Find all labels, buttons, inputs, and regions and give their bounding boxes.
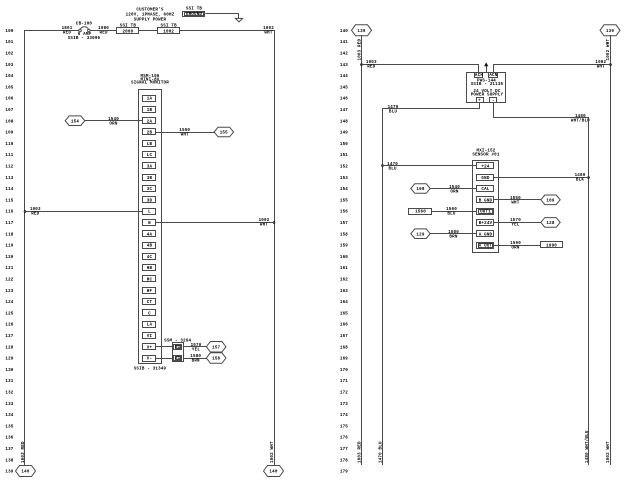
svg-text:1540: 1540	[449, 186, 460, 190]
svg-text:152: 152	[340, 166, 348, 170]
svg-text:ORN: ORN	[450, 191, 458, 195]
svg-text:51: 51	[175, 346, 181, 350]
node: wire label 1080 RED	[98, 27, 109, 36]
node: hexagon 155	[214, 127, 234, 137]
svg-text:CUSTOMER'S: CUSTOMER'S	[136, 8, 163, 13]
wire: bus 1003 RED (right sheet)	[361, 35, 363, 465]
svg-text:154: 154	[71, 120, 79, 124]
circuit breaker CB-100	[68, 23, 101, 41]
svg-text:WHT: WHT	[181, 134, 189, 138]
node: monitor terminal 4A (line 118)	[143, 231, 156, 238]
node: monitor terminal 3B (line 113)	[143, 175, 156, 181]
svg-text:160: 160	[340, 256, 348, 260]
svg-text:1003 RED: 1003 RED	[358, 441, 362, 463]
svg-text:ACH: ACH	[475, 74, 483, 78]
svg-text:BLU: BLU	[389, 168, 397, 172]
wire: rail breaker to TB 2000	[90, 30, 117, 32]
terminal SSI TB GROUND	[183, 8, 205, 17]
svg-text:B GND: B GND	[479, 199, 493, 203]
node: hexagon 108	[411, 184, 430, 194]
svg-text:138: 138	[5, 459, 13, 463]
svg-text:161: 161	[340, 267, 348, 271]
wire: bus 1470 BLU	[382, 108, 384, 465]
svg-text:HC: HC	[147, 279, 153, 283]
wire 1480 WHT/BLU from - terminal to bus	[494, 103, 589, 118]
svg-text:117: 117	[5, 222, 13, 226]
node: monitor terminal V+ (line 128)	[143, 344, 156, 351]
svg-text:3C: 3C	[147, 188, 153, 192]
ground: chassis arrow above power supply	[486, 64, 488, 73]
svg-text:CT: CT	[147, 301, 153, 305]
svg-text:LC: LC	[147, 154, 153, 158]
svg-text:144: 144	[340, 75, 348, 79]
svg-text:ORN: ORN	[109, 123, 117, 127]
svg-text:1801: 1801	[62, 27, 73, 31]
svg-text:169: 169	[340, 358, 348, 362]
svg-text:BLU: BLU	[389, 111, 397, 115]
svg-text:SUPPLY POWER: SUPPLY POWER	[134, 18, 167, 22]
terminal 1560	[409, 209, 432, 215]
wire 1002 WHT from terminal N to right bus	[273, 221, 276, 224]
node: sensor terminal CAL (line 154)	[477, 186, 494, 193]
svg-text:109: 109	[546, 199, 554, 203]
svg-text:3D: 3D	[147, 199, 153, 203]
node: monitor terminal 4C (line 120)	[143, 254, 156, 260]
node: sensor terminal +24 (line 152)	[477, 163, 494, 170]
svg-text:107: 107	[5, 109, 13, 113]
svg-text:108: 108	[5, 120, 13, 124]
svg-text:128: 128	[5, 346, 13, 350]
node: monitor terminal HF (line 123)	[143, 288, 156, 294]
node: monitor terminal 3C (line 114)	[143, 186, 156, 193]
svg-text:1A: 1A	[147, 98, 153, 102]
svg-text:153: 153	[340, 177, 348, 181]
node: monitor terminal LC (line 111)	[143, 152, 156, 159]
svg-text:V-: V-	[147, 358, 152, 362]
svg-text:SIGNAL MONITOR: SIGNAL MONITOR	[131, 81, 169, 85]
terminal block SSM - 3294	[164, 339, 191, 361]
node: customer supply note	[126, 8, 175, 23]
svg-text:HB: HB	[147, 267, 153, 271]
svg-text:133: 133	[5, 403, 13, 407]
wire: supply rail line 100, left bus to breaker	[24, 30, 79, 32]
op-amp U1: MSM-106 MINI-8X signal monitor block	[131, 75, 169, 363]
svg-text:171: 171	[340, 380, 348, 384]
svg-text:157: 157	[340, 222, 348, 226]
svg-text:158: 158	[212, 358, 220, 362]
svg-text:111: 111	[5, 154, 13, 158]
svg-text:118: 118	[5, 233, 13, 237]
node: wire label 1801 RED	[62, 27, 73, 36]
svg-text:2000: 2000	[122, 30, 133, 34]
wire: ground branch	[206, 14, 239, 19]
op-amp U2: MXI-152 SENSOR #01 block	[472, 150, 499, 253]
svg-text:178: 178	[340, 459, 348, 463]
svg-text:136: 136	[5, 437, 13, 441]
wire: rail TB 1002 to right bus, wire 1002 WHT	[180, 30, 275, 32]
svg-text:1002 WHT: 1002 WHT	[607, 39, 611, 61]
svg-text:159: 159	[340, 245, 348, 249]
svg-text:134: 134	[5, 414, 13, 418]
svg-text:129: 129	[5, 358, 13, 362]
svg-text:RED: RED	[63, 32, 71, 36]
node: sensor terminal A GND (line 158)	[477, 231, 494, 238]
svg-text:CB-100: CB-100	[76, 23, 93, 27]
svg-text:126: 126	[5, 324, 13, 328]
svg-text:POWER SUPPLY: POWER SUPPLY	[471, 94, 504, 98]
node: monitor terminal C (line 125)	[143, 310, 156, 317]
ground	[235, 18, 242, 22]
svg-text:109: 109	[5, 132, 13, 136]
wire 1003 RED from left bus to terminal L	[24, 210, 27, 213]
svg-text:158: 158	[340, 233, 348, 237]
svg-text:177: 177	[340, 448, 348, 452]
svg-text:WHT/BLU: WHT/BLU	[571, 119, 590, 124]
svg-text:139: 139	[357, 30, 365, 34]
wire: V- to terminal block	[156, 358, 173, 360]
wire: left sheet line-number column	[5, 30, 13, 475]
svg-text:142: 142	[340, 53, 348, 57]
svg-text:145: 145	[340, 86, 348, 90]
svg-text:119: 119	[5, 245, 13, 249]
svg-text:SSIB - 31135: SSIB - 31135	[471, 83, 504, 87]
svg-text:RED: RED	[100, 32, 108, 36]
wire: left bus 1003 RED	[24, 30, 26, 466]
svg-text:151: 151	[340, 154, 348, 158]
svg-text:1002: 1002	[163, 30, 174, 34]
svg-text:WHT: WHT	[597, 66, 605, 70]
svg-text:1580: 1580	[190, 355, 201, 359]
svg-text:YEL: YEL	[192, 349, 200, 353]
node: hexagon 158	[206, 353, 226, 364]
node: monitor terminal LB (line 110)	[143, 141, 156, 147]
svg-text:1990: 1990	[546, 245, 557, 249]
svg-text:RED: RED	[367, 66, 375, 70]
svg-text:147: 147	[340, 109, 348, 113]
svg-text:127: 127	[5, 335, 13, 339]
svg-text:A OUT: A OUT	[479, 245, 493, 249]
svg-text:174: 174	[340, 414, 348, 418]
svg-text:YEL: YEL	[511, 224, 519, 228]
svg-text:CAL: CAL	[481, 188, 489, 192]
svg-text:114: 114	[5, 188, 13, 192]
svg-text:100: 100	[5, 30, 13, 34]
svg-text:21: 21	[175, 357, 181, 361]
svg-text:173: 173	[340, 403, 348, 407]
svg-text:1B: 1B	[147, 109, 153, 113]
wire: right sheet line-number column	[340, 30, 348, 475]
svg-text:1560: 1560	[415, 211, 426, 215]
svg-text:176: 176	[340, 437, 348, 441]
node: off-sheet hexagon 140 (right bus bottom)	[264, 466, 284, 477]
node: hexagon 157	[206, 342, 226, 353]
wire 1003 RED from bus to power supply ACH	[360, 63, 363, 66]
svg-text:106: 106	[5, 98, 13, 102]
svg-text:BRN: BRN	[449, 236, 457, 240]
wire 1470 BLU from + terminal to bus	[383, 103, 480, 109]
svg-text:108: 108	[416, 188, 424, 192]
node: monitor terminal N (line 117)	[143, 220, 156, 227]
svg-text:C: C	[148, 312, 151, 316]
svg-text:120V, 1PHASE, 60HZ: 120V, 1PHASE, 60HZ	[126, 13, 175, 17]
wire: bus 1002 WHT (right sheet)	[610, 35, 612, 465]
svg-text:1580: 1580	[448, 231, 459, 235]
node: monitor terminal 1A (line 106)	[143, 96, 156, 102]
power supply PWS-144 24 VDC	[467, 73, 506, 104]
node: sensor terminal OUT1 (line 156)	[477, 209, 494, 215]
svg-text:104: 104	[5, 75, 13, 79]
node: monitor terminal VI (line 127)	[143, 333, 156, 340]
svg-text:2B: 2B	[147, 132, 153, 136]
wire: rail TB 2000 to TB 1002	[139, 30, 158, 32]
svg-text:1002: 1002	[263, 27, 274, 31]
svg-text:155: 155	[220, 132, 228, 136]
svg-text:120: 120	[5, 256, 13, 260]
node: hexagon 128	[541, 218, 560, 228]
svg-text:110: 110	[5, 143, 13, 147]
svg-text:129: 129	[416, 233, 424, 237]
svg-text:GND: GND	[481, 177, 489, 181]
svg-text:155: 155	[340, 199, 348, 203]
wire 1550 WHT from B GND terminal	[494, 199, 541, 201]
svg-text:116: 116	[5, 211, 13, 215]
wire 1002 WHT from power supply ACN to bus	[609, 63, 612, 66]
svg-text:1470: 1470	[388, 106, 399, 110]
svg-text:148: 148	[340, 120, 348, 124]
node: sensor terminal A OUT (line 159)	[477, 243, 494, 249]
node: monitor terminal HC (line 122)	[143, 276, 156, 283]
svg-text:121: 121	[5, 267, 13, 271]
svg-text:179: 179	[340, 471, 348, 475]
wire: bus 1480 WHT/BLU	[588, 117, 590, 465]
svg-text:166: 166	[340, 324, 348, 328]
svg-text:1003: 1003	[366, 61, 377, 65]
node: monitor terminal 1B (line 107)	[143, 107, 156, 114]
wire: V+ to terminal block	[156, 346, 173, 348]
svg-text:1470 BLU: 1470 BLU	[379, 441, 383, 463]
svg-text:4A: 4A	[147, 233, 153, 237]
svg-text:LB: LB	[147, 143, 153, 147]
svg-text:168: 168	[340, 346, 348, 350]
svg-text:102: 102	[5, 53, 13, 57]
svg-text:128: 128	[546, 222, 554, 226]
node: hexagon 129	[411, 229, 430, 239]
svg-text:103: 103	[5, 64, 13, 68]
svg-text:122: 122	[5, 279, 13, 283]
svg-text:1540: 1540	[108, 118, 119, 122]
svg-text:175: 175	[340, 425, 348, 429]
node: off-sheet hexagon 139 (top right)	[600, 25, 620, 36]
svg-text:1550: 1550	[179, 129, 190, 133]
svg-text:131: 131	[5, 380, 13, 384]
svg-text:1560: 1560	[446, 208, 457, 212]
svg-text:164: 164	[340, 301, 348, 305]
svg-text:ACN: ACN	[489, 74, 497, 78]
wire 1580 BRN to hexagon 158	[183, 358, 207, 360]
svg-text:140: 140	[21, 471, 29, 475]
node: sensor terminal GND (line 153)	[477, 175, 494, 181]
node: off-sheet hexagon 140 (left bus bottom)	[16, 466, 36, 477]
wire 1560 BLU to OUT1 terminal	[432, 211, 477, 213]
svg-text:+24: +24	[481, 166, 489, 170]
svg-text:BRN: BRN	[192, 360, 200, 364]
node: monitor terminal 3A (line 112)	[143, 163, 156, 170]
svg-text:1003: 1003	[30, 208, 41, 212]
wire 1590 ORN from A OUT terminal	[494, 245, 541, 247]
svg-text:124: 124	[5, 301, 13, 305]
node: off-sheet hexagon 139 (top left)	[352, 25, 372, 36]
svg-text:140: 140	[340, 30, 348, 34]
node: monitor terminal V- (line 129)	[143, 356, 156, 362]
svg-text:165: 165	[340, 312, 348, 316]
svg-text:1480: 1480	[575, 115, 586, 119]
svg-text:RED: RED	[31, 213, 39, 217]
svg-text:135: 135	[5, 425, 13, 429]
node: monitor terminal L (line 116)	[143, 209, 156, 215]
wire 1540 ORN to CAL terminal	[430, 188, 477, 190]
svg-text:162: 162	[340, 279, 348, 283]
svg-text:125: 125	[5, 312, 13, 316]
svg-text:143: 143	[340, 64, 348, 68]
svg-text:149: 149	[340, 132, 348, 136]
node: monitor terminal HB (line 121)	[143, 265, 156, 272]
svg-text:132: 132	[5, 392, 13, 396]
wire 1570 YEL from B+24V terminal	[494, 222, 541, 224]
svg-text:157: 157	[212, 346, 220, 350]
svg-text:SENSOR #01: SENSOR #01	[472, 153, 499, 157]
svg-text:1003 RED: 1003 RED	[22, 441, 26, 463]
svg-text:139: 139	[606, 30, 614, 34]
svg-text:2A: 2A	[147, 120, 153, 124]
svg-text:115: 115	[5, 199, 13, 203]
svg-text:1590: 1590	[510, 242, 521, 246]
wire: right bus 1002 WHT	[274, 30, 276, 466]
terminal 1990	[541, 242, 563, 249]
svg-text:3A: 3A	[147, 166, 153, 170]
svg-text:146: 146	[340, 98, 348, 102]
svg-text:167: 167	[340, 335, 348, 339]
node: monitor terminal 2B (line 109)	[143, 129, 156, 136]
node: monitor terminal CT (line 124)	[143, 299, 156, 306]
svg-text:4B: 4B	[147, 245, 153, 249]
svg-text:137: 137	[5, 448, 13, 452]
svg-text:SSIB - 33096: SSIB - 33096	[68, 37, 101, 41]
svg-text:V+: V+	[147, 346, 153, 350]
svg-text:101: 101	[5, 41, 13, 45]
svg-text:SSIB - 31349: SSIB - 31349	[134, 368, 167, 372]
node: monitor terminal LA (line 126)	[143, 322, 156, 328]
svg-text:LA: LA	[147, 324, 153, 328]
svg-text:L: L	[148, 211, 151, 215]
terminal SSI TB 1002	[158, 24, 180, 34]
svg-text:105: 105	[5, 86, 13, 90]
svg-text:140: 140	[269, 471, 277, 475]
wire 1570 YEL to hexagon 157	[183, 346, 207, 348]
node: hexagon 154	[65, 116, 85, 126]
wire 1580 BRN to A GND terminal	[430, 233, 477, 235]
svg-text:1002: 1002	[595, 61, 606, 65]
svg-text:N: N	[148, 222, 151, 226]
svg-text:OUT1: OUT1	[480, 211, 491, 215]
svg-text:GROUND: GROUND	[186, 13, 203, 17]
svg-text:130: 130	[5, 369, 13, 373]
svg-text:WHT: WHT	[264, 32, 272, 36]
svg-text:1550: 1550	[510, 197, 521, 201]
wire 1470 BLU tap to +24 terminal	[381, 164, 384, 167]
svg-text:HF: HF	[147, 290, 153, 294]
svg-text:3B: 3B	[147, 177, 153, 181]
svg-text:1480: 1480	[575, 174, 586, 178]
wire 1550 WHT from terminal 2B	[156, 132, 215, 134]
svg-text:1002 WHT: 1002 WHT	[271, 441, 275, 463]
svg-text:1470: 1470	[387, 163, 398, 167]
svg-text:156: 156	[340, 211, 348, 215]
terminal SSI TB 2000	[117, 24, 139, 34]
svg-text:1570: 1570	[510, 219, 521, 223]
svg-text:150: 150	[340, 143, 348, 147]
node: monitor terminal 4B (line 119)	[143, 243, 156, 249]
svg-text:ORN: ORN	[511, 247, 519, 251]
wire 1540 ORN to terminal 2A	[84, 120, 143, 122]
svg-text:1570: 1570	[191, 344, 202, 348]
svg-text:1002 WHT: 1002 WHT	[607, 441, 611, 463]
svg-text:163: 163	[340, 290, 348, 294]
svg-text:1002: 1002	[259, 219, 270, 223]
svg-text:113: 113	[5, 177, 13, 181]
svg-text:BLU: BLU	[447, 213, 455, 217]
svg-text:141: 141	[340, 41, 348, 45]
svg-text:VI: VI	[147, 335, 153, 339]
node: sensor terminal B+24V (line 157)	[477, 220, 494, 227]
svg-text:172: 172	[340, 392, 348, 396]
svg-text:1003 RED: 1003 RED	[358, 39, 362, 61]
svg-text:4C: 4C	[147, 256, 153, 260]
node: sensor terminal B GND (line 155)	[477, 197, 494, 204]
svg-text:170: 170	[340, 369, 348, 373]
svg-text:112: 112	[5, 166, 13, 170]
svg-text:123: 123	[5, 290, 13, 294]
svg-text:139: 139	[5, 471, 13, 475]
wire 1480 BLK from GND terminal to bus	[587, 176, 590, 179]
node: hexagon 109	[541, 195, 560, 205]
svg-text:B+24V: B+24V	[479, 222, 493, 226]
svg-text:154: 154	[340, 188, 348, 192]
node: monitor terminal 2A (line 108)	[143, 118, 156, 125]
svg-text:A GND: A GND	[479, 233, 493, 237]
svg-text:WHT: WHT	[511, 202, 519, 206]
svg-text:BLK: BLK	[576, 179, 584, 183]
svg-text:WHT: WHT	[260, 224, 268, 228]
svg-text:1480 WHT/BLU: 1480 WHT/BLU	[585, 430, 590, 463]
node: monitor terminal 3D (line 115)	[143, 197, 156, 204]
